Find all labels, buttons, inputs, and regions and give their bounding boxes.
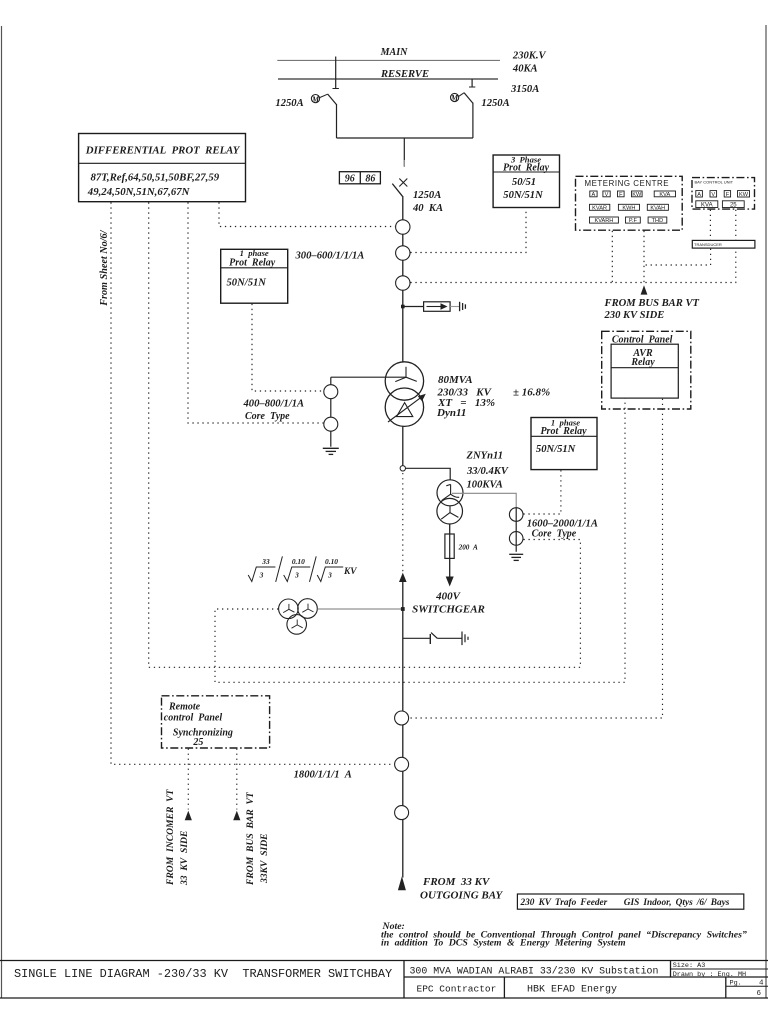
svg-text:SWITCHGEAR: SWITCHGEAR [412, 604, 485, 616]
node: junction to surge arrester [401, 305, 405, 309]
svg-text:FROM BUS BAR VT: FROM BUS BAR VT [245, 791, 256, 886]
svg-text:KW: KW [739, 192, 749, 198]
svg-text:230K.V: 230K.V [512, 51, 547, 62]
ground (CT branch) [323, 448, 339, 454]
svg-text:KV: KV [343, 567, 357, 577]
svg-text:ZNYn11: ZNYn11 [466, 450, 504, 461]
svg-text:F: F [619, 192, 623, 198]
earthing switch branch [403, 633, 462, 644]
svg-text:KVAR: KVAR [592, 205, 607, 211]
wire: control panel to 1800 CT [409, 399, 663, 718]
differential prot relay box [79, 134, 246, 202]
arrow on main feeder [399, 573, 407, 582]
CT 400-800 ring 1 [324, 385, 338, 399]
svg-text:MAIN: MAIN [380, 47, 408, 58]
svg-text:40KA: 40KA [512, 64, 538, 75]
svg-text:Remote: Remote [168, 702, 201, 713]
svg-text:KVARH: KVARH [594, 218, 613, 224]
wire: below transformer [402, 426, 404, 471]
CT 1600-2000 ring 1 [509, 508, 523, 522]
wire: remote panel drop bus bar vt [236, 749, 238, 810]
CT 300-600 ring 3 [396, 276, 410, 290]
bcu instrument boxes row2 [696, 201, 744, 208]
svg-text:SINGLE LINE DIAGRAM -230/33 KV: SINGLE LINE DIAGRAM -230/33 KV TRANSFORM… [14, 967, 392, 981]
svg-text:0.10: 0.10 [325, 557, 338, 566]
svg-text:A: A [592, 192, 596, 198]
CT 1800 ring 2 [395, 757, 409, 771]
svg-text:KVAH: KVAH [650, 205, 665, 211]
svg-text:F: F [726, 192, 730, 198]
wye in VT C [292, 620, 303, 629]
svg-text:50N/51N: 50N/51N [227, 277, 267, 288]
wire: bcu 25 to transducer [735, 210, 737, 241]
svg-text:25: 25 [730, 202, 737, 208]
svg-text:TRANSDUCER: TRANSDUCER [694, 242, 722, 247]
metering instrument boxes row2 [590, 204, 669, 210]
svg-text:V: V [711, 192, 715, 198]
svg-text:1250A: 1250A [413, 190, 441, 201]
wire: metering drop B (bus bar vt) [643, 231, 645, 284]
wire: HV CT tap [331, 376, 406, 378]
node: VT tap junction [401, 607, 405, 611]
wire: fuse lead [449, 524, 451, 578]
svg-text:33/0.4KV: 33/0.4KV [466, 466, 509, 477]
svg-text:50N/51N: 50N/51N [503, 190, 543, 201]
svg-text:control Panel: control Panel [164, 713, 223, 724]
wire: CT branch drop [330, 377, 332, 447]
svg-text:87T,Ref,64,50,51,50BF,27,59: 87T,Ref,64,50,51,50BF,27,59 [91, 172, 220, 184]
node: aux tap junction circle [400, 466, 405, 471]
CT 400-800 ring 2 [324, 417, 338, 431]
wye symbol in HV winding [395, 367, 417, 382]
svg-text:BAY CONTROL UNIT: BAY CONTROL UNIT [695, 179, 734, 184]
svg-text:3: 3 [294, 571, 299, 580]
svg-text:M: M [311, 95, 320, 104]
wire: remote panel drop incomer vt [187, 749, 189, 810]
svg-text:Relay: Relay [630, 357, 655, 368]
svg-text:1250A: 1250A [275, 98, 303, 109]
voltage transformer VT circle B [298, 599, 318, 619]
svg-text:Pg.: Pg. [730, 980, 742, 988]
bcu instrument boxes row1 [696, 191, 750, 197]
wire to surge arrester [403, 306, 424, 308]
svg-text:230 KV SIDE: 230 KV SIDE [604, 310, 665, 321]
wire: aux secondary lead (gray) [452, 493, 516, 508]
wire: transducer to bus vt joint [644, 249, 711, 265]
svg-text:6: 6 [757, 990, 762, 998]
control panel box [602, 331, 691, 409]
arrow from bus bar vt (230kv) [641, 285, 648, 294]
wire: VT to main line (gray) [317, 608, 403, 610]
metering instrument boxes row1 [590, 191, 676, 197]
breaker CB1 (X contact with blade) [392, 160, 407, 196]
wire: bcu kva to transducer [709, 210, 711, 241]
svg-text:4: 4 [759, 980, 764, 988]
wire: VT secondary to control panel [215, 399, 625, 683]
svg-text:3: 3 [327, 571, 332, 580]
3 phase prot relay box [493, 155, 559, 208]
feeder box [517, 894, 743, 909]
bay control unit box [692, 178, 755, 210]
wire: 300-600 CT to 3ph relay [410, 208, 526, 252]
wire: main feeder upper [402, 196, 404, 362]
svg-text:METERING CENTRE: METERING CENTRE [585, 179, 670, 188]
CT 1800 ring 3 [395, 806, 409, 820]
svg-text:33 KV SIDE: 33 KV SIDE [179, 831, 190, 886]
bus RESERVE [278, 78, 498, 80]
svg-text:200 A: 200 A [458, 543, 478, 551]
svg-text:in addition To DCS System & En: in addition To DCS System & Energy Meter… [381, 938, 626, 949]
CT 300-600 ring 1 [396, 220, 410, 234]
svg-text:Dyn11: Dyn11 [436, 407, 466, 419]
wye in VT A [283, 604, 294, 613]
svg-text:V: V [605, 192, 609, 198]
svg-text:FROM 33 KV: FROM 33 KV [422, 876, 491, 888]
border frame right [765, 25, 767, 998]
ground (earthing switch) [462, 632, 468, 646]
svg-text:3: 3 [259, 571, 264, 580]
svg-text:P.F: P.F [629, 218, 638, 224]
svg-text:230 KV Trafo Feeder GIS Ind: 230 KV Trafo Feeder GIS Indoor, Qtys /6/… [520, 898, 730, 908]
transformer T1 LV winding [385, 388, 423, 426]
svg-text:Prot Relay: Prot Relay [229, 258, 276, 269]
arrow to 400V switchgear [446, 577, 454, 587]
svg-text:From Sheet No/6/: From Sheet No/6/ [99, 229, 110, 306]
border frame left [1, 26, 3, 998]
motor M1 [311, 95, 319, 103]
metering centre box [576, 176, 683, 230]
wire: 1ph relay lower to 1600-2000 CT [523, 470, 561, 514]
VT ratio formula [248, 556, 343, 582]
svg-text:33KV SIDE: 33KV SIDE [259, 833, 270, 884]
CT 300-600 ring 2 [396, 246, 410, 260]
svg-text:KVA: KVA [659, 192, 670, 198]
svg-text:300–600/1/1/1A: 300–600/1/1/1A [295, 250, 365, 261]
arrow from bus bar vt (33kv) [233, 811, 240, 820]
svg-text:A: A [697, 192, 701, 198]
svg-text:49,24,50N,51N,67,67N: 49,24,50N,51N,67,67N [87, 186, 191, 198]
svg-text:DIFFERENTIAL PROT RELAY: DIFFERENTIAL PROT RELAY [85, 145, 241, 157]
svg-text:M: M [450, 94, 459, 103]
1 phase prot relay box upper [221, 249, 288, 303]
svg-text:RESERVE: RESERVE [380, 69, 429, 80]
arrow incoming from outgoing bay [398, 876, 406, 890]
svg-text:50/51: 50/51 [512, 177, 536, 188]
svg-text:100KVA: 100KVA [467, 480, 503, 491]
surge arrester LA1 [424, 302, 451, 312]
remote control panel box [162, 696, 270, 748]
tap changer arrow [388, 396, 423, 422]
svg-text:FROM BUS BAR VT: FROM BUS BAR VT [604, 298, 700, 309]
voltage transformer VT circle A [279, 599, 299, 619]
1 phase prot relay box lower [531, 418, 597, 470]
wire: 300-600 CT3 to metering/transducer [410, 249, 735, 283]
svg-text:400V: 400V [435, 590, 462, 602]
ground (aux CT) [509, 554, 523, 560]
wire: 1ph relay upper to 400-800 CT [252, 304, 323, 391]
svg-text:400–800/1/1A: 400–800/1/1A [243, 399, 305, 410]
svg-text:96: 96 [345, 173, 355, 184]
svg-text:Core Type: Core Type [245, 411, 290, 422]
svg-text:3150A: 3150A [510, 84, 539, 95]
wire: diff relay to 400-800 CT (drop 3) [188, 202, 323, 423]
wire: drop to breaker [403, 138, 405, 167]
wire: diff relay to 1800 CT (drop 1) [111, 202, 394, 764]
wire: metering drop A [611, 231, 613, 283]
svg-text:OUTGOING BAY: OUTGOING BAY [420, 889, 503, 901]
svg-text:Prot Relay: Prot Relay [540, 426, 587, 437]
delta symbol in LV winding [397, 403, 413, 417]
voltage transformer VT circle C [287, 615, 307, 635]
svg-text:86: 86 [365, 173, 375, 184]
svg-text:25: 25 [192, 737, 203, 748]
svg-text:Prot Relay: Prot Relay [503, 163, 550, 174]
svg-text:0.10: 0.10 [292, 557, 305, 566]
svg-text:FROM INCOMER VT: FROM INCOMER VT [165, 788, 176, 886]
title block frame [0, 961, 768, 999]
relay flags box 96/86 [339, 172, 380, 184]
svg-text:EPC Contractor: EPC Contractor [417, 984, 497, 995]
CT 1600-2000 ring 2 [509, 532, 523, 546]
svg-text:Size: A3: Size: A3 [673, 962, 706, 970]
svg-text:HBK EFAD Energy: HBK EFAD Energy [527, 985, 617, 996]
aux transformer TA secondary [437, 498, 463, 524]
wire: main feeder dotted section [402, 473, 404, 573]
fuse 200A [445, 534, 454, 558]
ground (arrester) [460, 302, 466, 311]
svg-text:40 KA: 40 KA [412, 203, 443, 214]
disconnector DS2 (reserve side) [464, 79, 475, 138]
svg-text:1250A: 1250A [481, 98, 509, 109]
wire: diff relay to 300-600 CT (drop 4) [219, 202, 395, 226]
svg-text:33: 33 [261, 557, 270, 566]
wye symbol in secondary [441, 506, 458, 520]
wire: between CTs to ground [515, 508, 517, 552]
svg-text:50N/51N: 50N/51N [536, 444, 576, 455]
svg-text:THD: THD [652, 218, 664, 224]
svg-text:KWH: KWH [622, 205, 635, 211]
svg-text:80MVA: 80MVA [438, 374, 473, 386]
metering instrument boxes row3 [590, 217, 667, 223]
wire: diff relay to 1600-2000 CT (drop 2) [149, 202, 581, 667]
wire: junction bar below disconnectors [337, 137, 473, 139]
motor M2 [451, 93, 459, 101]
transformer T1 HV winding [385, 362, 423, 400]
svg-text:KW: KW [632, 192, 642, 198]
svg-text:300 MVA WADIAN ALRABI 33/230 K: 300 MVA WADIAN ALRABI 33/230 KV Substati… [410, 966, 659, 977]
arrow from incomer vt [185, 811, 192, 820]
avr relay inner box [611, 344, 678, 398]
svg-text:Core Type: Core Type [532, 529, 577, 540]
wire: main feeder lower [402, 582, 404, 878]
transducer box [692, 240, 755, 248]
disconnector DS1 (main side) [328, 57, 339, 139]
svg-text:KVA: KVA [701, 202, 713, 208]
aux transformer TA primary [437, 480, 463, 506]
svg-text:1800/1/1/1 A: 1800/1/1/1 A [294, 769, 352, 780]
zigzag symbol in primary [442, 484, 460, 500]
CT 1800 ring 1 [395, 711, 409, 725]
bus MAIN [277, 59, 500, 61]
svg-text:Drawn by : Eng. MH: Drawn by : Eng. MH [673, 971, 746, 979]
wye in VT B [302, 604, 313, 613]
wire: to aux transformer [406, 468, 451, 480]
